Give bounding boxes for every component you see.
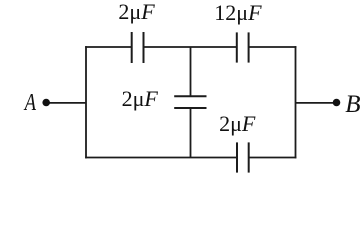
wire: bottom-left segment (left rail to C4)	[85, 157, 237, 159]
wire: left rail	[85, 46, 87, 158]
wire: top-left segment (left rail to C1)	[85, 46, 132, 48]
wire: middle rail upper (top wire to C3)	[190, 47, 192, 96]
capacitor C1 (2uF) right plate	[143, 32, 145, 63]
wire: terminal B lead	[296, 102, 337, 104]
wire: bottom-right segment (C4 to right rail)	[249, 157, 297, 159]
capacitor C2 (12uF) right plate	[248, 32, 250, 62]
capacitor C1 (2uF) left plate	[131, 32, 133, 63]
wire: top-right segment (C2 to right rail)	[249, 46, 297, 48]
wire: middle rail lower (C3 to bottom wire)	[190, 108, 192, 158]
svg-text:12μF: 12μF	[214, 0, 262, 25]
capacitor C4 (2uF) left plate	[236, 142, 238, 172]
svg-text:B: B	[345, 91, 360, 118]
node B dot	[333, 99, 341, 107]
node A dot	[42, 99, 50, 107]
svg-text:2μF: 2μF	[118, 0, 155, 24]
svg-text:2μF: 2μF	[219, 111, 256, 136]
capacitor C3 (2uF) bottom plate	[174, 107, 206, 109]
svg-text:A: A	[23, 89, 37, 116]
wire: terminal A lead	[46, 102, 86, 104]
wire: right rail	[295, 46, 297, 158]
wire: top-middle segment (C1 to C2, with middle-rail junction)	[144, 46, 237, 48]
capacitor C2 (12uF) left plate	[236, 32, 238, 62]
capacitor C4 (2uF) right plate	[248, 142, 250, 172]
svg-text:2μF: 2μF	[122, 86, 159, 111]
capacitor C3 (2uF) top plate	[174, 95, 206, 97]
